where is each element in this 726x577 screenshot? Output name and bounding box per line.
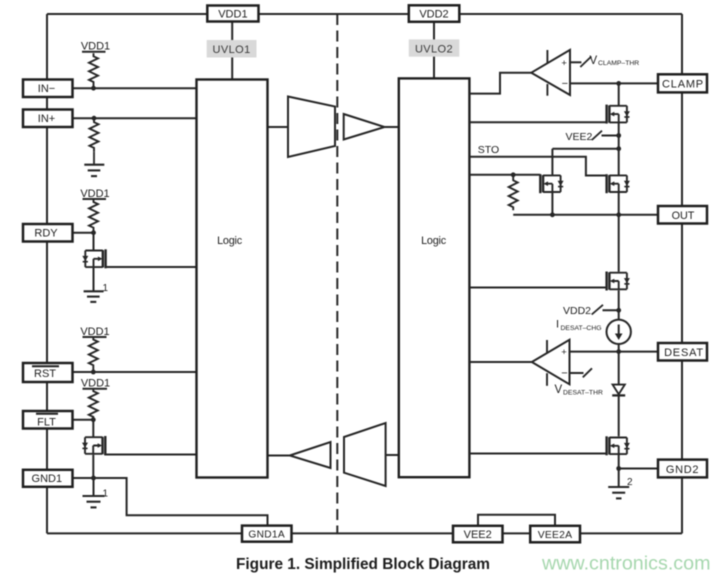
wire OUT rail	[513, 214, 658, 216]
wire Q3 drain to CLAMP node	[618, 83, 620, 105]
node FLT junction	[91, 417, 96, 422]
svg-text:−: −	[561, 368, 567, 380]
comparator U2 (DESAT)	[532, 340, 570, 386]
transistor Q6 (output FET)	[607, 272, 630, 291]
rail tick V CLAMP-THR	[580, 57, 591, 68]
wire current source to DESAT node	[618, 344, 620, 352]
label V CLAMP-THR	[590, 55, 640, 67]
resistor R3 RDY pull-up	[89, 199, 98, 233]
resistor R6 (gate bleed)	[509, 175, 518, 211]
diode D1 (DESAT blanking)	[612, 385, 625, 396]
wire FLT to pulldown node	[72, 419, 93, 421]
node RDY junction	[91, 230, 96, 235]
terminal box VDD2	[409, 5, 460, 22]
transistor Q2 (FLT pull-down)	[82, 436, 105, 455]
transistor Q7 (GND2 FET)	[607, 436, 630, 455]
transistor Q1 (RDY pull-down)	[82, 249, 105, 268]
terminal box VDD1	[207, 6, 258, 22]
label I DESAT-CHG	[556, 319, 602, 333]
wire Q7 gate to Logic2	[469, 453, 606, 455]
terminal box FLT (active low)	[23, 411, 73, 429]
node RST junction	[91, 370, 96, 375]
resistor R1 IN- pull-up	[89, 53, 98, 86]
receiver buffer top (triangle)	[344, 114, 385, 140]
wire Q3 source to VEE2 node	[618, 123, 620, 149]
rail tick VDD2	[592, 305, 603, 315]
current source I1	[607, 320, 631, 344]
svg-text:DESAT–CHG: DESAT–CHG	[561, 325, 602, 332]
svg-text:IN−: IN−	[38, 83, 55, 95]
transistor Q3 (clamp FET)	[607, 105, 630, 124]
rail tick VEE2	[592, 131, 602, 140]
resistor R5 FLT pull-up	[89, 389, 98, 419]
wire Q6 source to VDD2 node	[618, 290, 620, 319]
wire Q7 source to GND2 node	[618, 455, 620, 469]
svg-text:2: 2	[627, 477, 633, 488]
rail label VDD1 (IN- pull-up)	[81, 41, 110, 53]
node R6 to OUT rail	[550, 212, 555, 217]
svg-text:VDD2: VDD2	[419, 9, 448, 21]
node CLAMP junction	[616, 81, 621, 86]
svg-text:FLT: FLT	[37, 417, 56, 429]
wire VDD2 tap	[603, 309, 619, 311]
svg-text:GND2: GND2	[666, 464, 699, 476]
svg-text:www.cntronics.com: www.cntronics.com	[541, 553, 710, 575]
wire receiver bottom to Logic1	[268, 455, 290, 457]
receiver buffer bottom (triangle)	[290, 442, 331, 468]
node IN- junction	[91, 86, 96, 91]
node Q4 gate junction	[511, 172, 516, 177]
wire Q2 source to GND1 node	[92, 455, 94, 478]
rail label VDD1 (FLT pull-up)	[81, 378, 110, 390]
Logic block 1	[197, 80, 268, 478]
wire left border	[46, 14, 48, 533]
ground (IN+ pull-down)	[84, 165, 104, 176]
svg-text:RST: RST	[34, 368, 56, 380]
terminal box IN+	[23, 110, 73, 128]
wire STO from Logic2 to Q5 gate	[469, 157, 606, 176]
wire diode to Q7 drain	[618, 395, 620, 436]
wire Q1 gate to Logic	[105, 266, 197, 268]
terminal box GND1	[23, 470, 73, 487]
transistor Q5 (pull-down FET)	[607, 174, 630, 193]
wire DESAT comparator output to Logic2	[469, 361, 531, 363]
wire DESAT node to diode	[618, 352, 620, 384]
wire GND1 node to ground symbol	[93, 478, 95, 496]
wire Logic1 to transmitter top	[268, 126, 289, 128]
resistor R2 IN+ pull-down	[90, 118, 99, 152]
svg-text:Logic: Logic	[217, 235, 243, 247]
wire VEE2 to VEE2A bracket	[478, 515, 555, 526]
svg-text:STO: STO	[478, 144, 499, 156]
rail label VDD1 (RST pull-up)	[80, 326, 109, 338]
wire Q2 gate to Logic	[104, 454, 196, 456]
wire GND1 to GND1A routing	[94, 478, 268, 526]
wire GND1 to node	[72, 477, 94, 479]
wire Q1 source to ground	[93, 268, 95, 291]
transistor Q4 (STO FET)	[540, 174, 563, 193]
label V DESAT-THR	[555, 384, 603, 397]
wire GND2 rail	[619, 468, 658, 470]
node GND2 junction	[616, 466, 621, 471]
node STO rail junction	[616, 146, 621, 151]
isolation barrier dashed line	[336, 14, 338, 533]
ground (GND2)	[608, 487, 629, 498]
terminal box RST (active low)	[23, 363, 73, 382]
wire VEE2 tap	[602, 135, 619, 137]
svg-text:DESAT: DESAT	[664, 347, 704, 359]
svg-text:VDD1: VDD1	[81, 41, 110, 53]
svg-text:1: 1	[103, 489, 109, 500]
wire R2 to ground	[93, 152, 95, 165]
svg-text:+: +	[561, 347, 567, 358]
wire RDY to pulldown node	[72, 232, 94, 234]
transmitter buffer top (trapezoid)	[288, 97, 335, 158]
svg-text:I: I	[556, 319, 559, 331]
svg-text:GND1A: GND1A	[248, 530, 285, 541]
wire Logic2 to transmitter bottom	[386, 454, 399, 456]
UVLO1 block	[207, 40, 257, 58]
node DESAT junction	[616, 349, 621, 354]
svg-text:V: V	[590, 55, 598, 67]
wire RST to Logic	[72, 371, 197, 373]
svg-text:VEE2A: VEE2A	[538, 530, 573, 541]
transmitter buffer bottom (trapezoid)	[344, 423, 386, 486]
UVLO2 block	[409, 39, 460, 56]
comparator U1 (clamp)	[531, 50, 570, 96]
wire Q5 source	[618, 193, 620, 215]
terminal box RDY	[23, 224, 73, 242]
wire Q3 gate to Logic2	[469, 121, 606, 123]
wire receiver top to Logic2	[385, 126, 399, 128]
node VEE2 junction	[616, 133, 621, 138]
wire VDD1 to UVLO1 to Logic	[231, 14, 233, 80]
svg-text:CLAMP: CLAMP	[662, 79, 704, 91]
wire Q4 drain drop	[551, 149, 553, 175]
wire Logic2 to Q4 gate	[469, 174, 540, 176]
wire Q1 drain	[93, 233, 95, 250]
wire bottom rail	[47, 532, 682, 534]
terminal box CLAMP	[658, 74, 707, 92]
wire Q4 source	[551, 193, 553, 215]
terminal box OUT	[658, 206, 707, 224]
svg-text:VEE2: VEE2	[566, 131, 593, 143]
node IN+ junction	[92, 116, 97, 121]
rail tick V DESAT-THR	[583, 368, 592, 377]
node GND1 junction	[91, 476, 96, 481]
wire OUT node to Q6 drain	[618, 215, 620, 272]
svg-text:VDD1: VDD1	[218, 9, 247, 21]
svg-text:+: +	[561, 58, 567, 69]
terminal box VEE2A	[530, 526, 580, 543]
Logic block 2	[399, 78, 470, 477]
node OUT junction	[616, 212, 621, 217]
svg-text:1: 1	[103, 283, 109, 294]
svg-text:CLAMP–THR: CLAMP–THR	[598, 60, 639, 67]
svg-text:RDY: RDY	[34, 228, 58, 240]
rail label VDD1 (RDY pull-up)	[80, 188, 109, 200]
svg-text:Figure 1. Simplified Block Dia: Figure 1. Simplified Block Diagram	[236, 556, 490, 573]
wire STO node rail	[552, 148, 618, 150]
svg-text:GND1: GND1	[32, 473, 63, 485]
wire IN- to Logic	[72, 87, 197, 89]
wire DESAT comparator minus input	[570, 372, 584, 374]
svg-text:IN+: IN+	[38, 113, 55, 125]
node VDD2 junction	[616, 308, 621, 313]
wire VDD2 to UVLO2 to Logic	[433, 14, 435, 78]
wire Q6 gate to Logic2	[469, 287, 606, 289]
wire DESAT comparator plus input to DESAT	[570, 351, 659, 353]
svg-text:OUT: OUT	[672, 210, 695, 222]
wire clamp comparator output to Logic2	[469, 73, 531, 94]
svg-text:VDD2: VDD2	[563, 305, 591, 317]
ground (Q1 source)	[84, 291, 104, 302]
terminal box VEE2	[453, 526, 503, 543]
svg-text:−: −	[562, 78, 568, 90]
svg-text:V: V	[555, 384, 563, 396]
terminal box GND1A	[242, 526, 292, 542]
wire IN+ to Logic	[72, 117, 197, 119]
wire GND2 node to ground	[618, 469, 620, 487]
wire Q2 drain	[92, 420, 94, 437]
svg-text:VEE2: VEE2	[464, 529, 492, 541]
terminal box GND2	[658, 460, 707, 478]
wire clamp comparator plus input	[570, 61, 581, 63]
ground (GND1)	[83, 496, 105, 507]
wire clamp comparator minus input to CLAMP	[570, 82, 658, 84]
terminal box IN-	[23, 80, 73, 98]
svg-text:UVLO2: UVLO2	[415, 43, 453, 55]
wire top VDD rail	[47, 13, 682, 15]
svg-text:Logic: Logic	[421, 235, 447, 247]
resistor R4 RST pull-up	[89, 337, 98, 370]
svg-text:DESAT–THR: DESAT–THR	[563, 390, 603, 397]
terminal box DESAT	[658, 343, 707, 361]
wire right border	[681, 14, 683, 533]
svg-text:UVLO1: UVLO1	[213, 44, 251, 56]
wire Q5 drain	[618, 149, 620, 175]
